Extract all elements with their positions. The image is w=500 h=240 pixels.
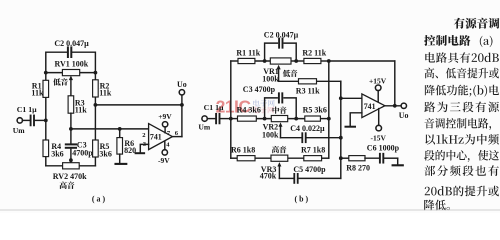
node input (a) [44,119,48,123]
pin 2 label (a) [142,132,146,139]
resistor R3 (b) [299,79,317,84]
label R4 (a) [51,142,63,158]
wire row3 (b) [231,118,329,120]
VR1 wiper (b) [277,65,281,82]
watermark 21IC [216,97,275,117]
potentiometer VR1 (b) [270,58,291,64]
svg-text:741: 741 [150,133,162,142]
potentiometer RV1 (a) [62,70,79,76]
label Um (b) [198,123,210,132]
label R5 (b) [303,105,327,114]
svg-text:R1 11k: R1 11k [236,49,260,58]
svg-text:R2 11k: R2 11k [302,49,326,58]
svg-text:C3 4700p: C3 4700p [243,85,276,94]
svg-text:Um: Um [13,126,25,135]
wire row1 (b) [231,60,395,62]
wire C2 loop (b) [265,43,297,61]
label R3 (b) [296,86,320,95]
-9V supply (a) [158,141,170,165]
svg-text:C1 1µ: C1 1µ [17,105,37,114]
node 4 (b) [294,117,298,121]
svg-text:C4 0.022µ: C4 0.022µ [290,124,325,133]
svg-text:C2 0.047µ: C2 0.047µ [264,31,299,40]
label R7 (b) [301,146,325,155]
op-amp U1 741 (a) [149,124,173,150]
resistor R4 (a) [43,120,49,165]
resistor R6 (b) [237,156,255,161]
input terminal Um (a) [17,118,22,123]
svg-text:-15V: -15V [370,133,386,142]
resistor R5 (a) [93,105,99,166]
VR2 wiper (b) [279,122,283,137]
svg-text:6: 6 [175,130,179,137]
wire output (b) [385,105,401,107]
label C3 (b) [243,85,276,94]
capacitor C4 (b) [302,133,305,142]
resistor R7 (b) [304,156,322,161]
svg-text:3k6: 3k6 [99,149,111,158]
wire output column (a) [181,95,183,137]
label bass (a) [53,78,68,85]
input terminal Um (b) [202,116,207,121]
pin 4 label (a) [166,142,170,149]
resistor R6 (a) [117,129,123,154]
svg-text:4: 4 [166,142,170,149]
pin 3 ground (a) [136,144,149,153]
label R5 (a) [99,142,111,158]
svg-text:C2 0.047µ: C2 0.047µ [54,39,89,48]
capacitor C2 (a) [68,47,71,57]
svg-text:2: 2 [142,132,146,139]
resistor R2 (a) [93,73,99,105]
svg-text:4700p: 4700p [72,149,93,158]
label R1 (b) [236,49,260,58]
resistor R2 (b) [304,58,321,63]
wire row5 (b) [231,61,329,158]
label (a) [92,194,106,203]
node R8 (b) [339,156,343,160]
resistor R3 (a) [68,96,74,113]
label C6 (b) [367,144,400,153]
svg-text:( a ): ( a ) [92,194,106,203]
potentiometer VR2 (b) [271,116,287,122]
node 1 (b) [263,59,267,63]
node output (b) [393,104,397,108]
node rail top (b) [327,59,331,63]
output terminal Uo (b) [399,103,409,120]
label (b) [295,195,309,204]
capacitor C1 (b) [207,114,231,123]
bottom scan streak [0,209,500,211]
ground R6 (a) [116,154,127,164]
resistor R1 (a) [43,73,49,120]
-15V supply (b) [370,109,386,143]
label treble (b) [272,146,287,153]
svg-text:100k: 100k [262,74,279,83]
capacitor C2 (b) [279,39,282,48]
label treble (a) [60,182,75,190]
svg-text:+15V: +15V [369,76,387,85]
+15V supply (b) [369,76,387,101]
svg-text:+9V: +9V [158,112,172,121]
label C4 (b) [290,124,325,133]
wire pin2 (b) [341,97,362,99]
wire node B row (a) [71,128,149,130]
wire R3 row (b) [279,80,341,82]
svg-text:11k: 11k [31,89,44,98]
wire R3 corner (b) [340,81,342,98]
node pin2 (b) [339,96,343,100]
resistor R5 (b) [305,116,321,121]
wire C2 loop (a) [46,52,96,72]
capacitor C1 (a) [22,116,45,126]
node pot left (a) [44,71,48,75]
label R2 (b) [302,49,326,58]
wire C5 row (b) [279,158,340,178]
label R1 (a) [31,81,44,97]
label VR3 (b) [260,165,277,181]
label C5 (b) [293,165,326,174]
RV1 wiper (a) [69,76,73,96]
capacitor C3 (a) [66,113,76,163]
capacitor C6 (b) [365,154,398,163]
potentiometer VR3 (b) [271,155,288,161]
label R3 (a) [75,98,88,114]
label mid (b) [273,107,287,114]
resistor R4 (b) [238,116,257,121]
label R4 (b) [237,105,261,114]
resistor R8 (b) [341,156,365,161]
svg-text:R3 11k: R3 11k [296,86,320,95]
label bass (b) [283,70,298,77]
node output (a) [180,103,184,107]
svg-text:RV1 100k: RV1 100k [55,60,89,69]
node C3-RV2 wiper (a) [69,158,73,162]
label C3 (a) [72,141,93,158]
label RV1 (a) [55,60,89,69]
wire feedback column (b) [394,61,396,106]
output terminal Uo (a) [177,80,187,95]
wire summing column (b) [340,81,342,158]
capacitor C3 (b) [279,93,282,102]
capacitor C5 (b) [294,174,297,183]
label Um (a) [13,126,25,135]
svg-text:R7 1k8: R7 1k8 [301,146,325,155]
pin 7 label (a) [167,130,171,137]
right column description text [424,18,499,211]
node 2 (b) [294,59,298,63]
svg-text:100k: 100k [262,131,279,140]
svg-text:C6 1000p: C6 1000p [367,144,400,153]
wire C3 loop (b) [265,98,297,119]
potentiometer RV2 (a) [63,163,80,169]
svg-text:-9V: -9V [158,156,170,165]
svg-text:RV2 470k: RV2 470k [53,172,87,181]
svg-text:Um: Um [198,123,210,132]
label R2 (a) [99,81,112,97]
svg-text:C1 1µ: C1 1µ [204,103,224,112]
node C4 (b) [339,136,343,140]
label R6 (a) [124,139,136,155]
wire feedback (a) [95,104,181,106]
resistor R1 (b) [238,58,255,63]
node rail mid (b) [327,117,331,121]
label C2 (b) [264,31,299,40]
svg-text:Uo: Uo [399,111,409,120]
wire input column (b) [230,61,232,158]
node pot right (a) [94,71,98,75]
svg-text:11k: 11k [75,105,88,114]
svg-text:( b ): ( b ) [295,195,309,204]
label VR1 (b) [262,67,279,83]
svg-text:R4 3k6: R4 3k6 [237,105,261,114]
label C1 (a) [17,105,37,114]
svg-text:R5 3k6: R5 3k6 [303,105,327,114]
svg-text:R6 1k8: R6 1k8 [231,146,255,155]
pin 3 label (a) [143,141,147,148]
wire C4 row (b) [281,137,341,139]
node R2 bottom (a) [94,103,98,107]
VR3 wiper (b) [277,162,281,178]
op-amp U2 741 (b) [362,94,385,118]
svg-text:R8 270: R8 270 [346,164,370,173]
svg-text:820: 820 [124,146,136,155]
ground C6 (b) [393,158,403,165]
label VR2 (b) [262,123,279,140]
svg-text:3k6: 3k6 [51,149,63,158]
label C1 (b) [204,103,224,112]
svg-text:Uo: Uo [177,80,187,89]
label RV2 (a) [53,172,87,181]
svg-text:11k: 11k [99,89,112,98]
node 3 (b) [263,117,267,121]
pin 3 ground (b) [346,113,362,127]
label R8 (b) [346,164,370,173]
svg-text:741: 741 [364,102,376,111]
label C2 (a) [54,39,89,48]
pin 6 output (a) [172,130,182,137]
wire RV1 row (a) [46,72,96,74]
+9V supply (a) [158,112,172,133]
svg-text:470k: 470k [260,172,277,181]
label R6 (b) [231,146,255,155]
node input (b) [229,117,233,121]
svg-text:C5 4700p: C5 4700p [293,165,326,174]
wire RV2 row (a) [46,165,96,167]
node R6 top (a) [118,127,122,131]
node R3-C3 (a) [69,127,73,131]
